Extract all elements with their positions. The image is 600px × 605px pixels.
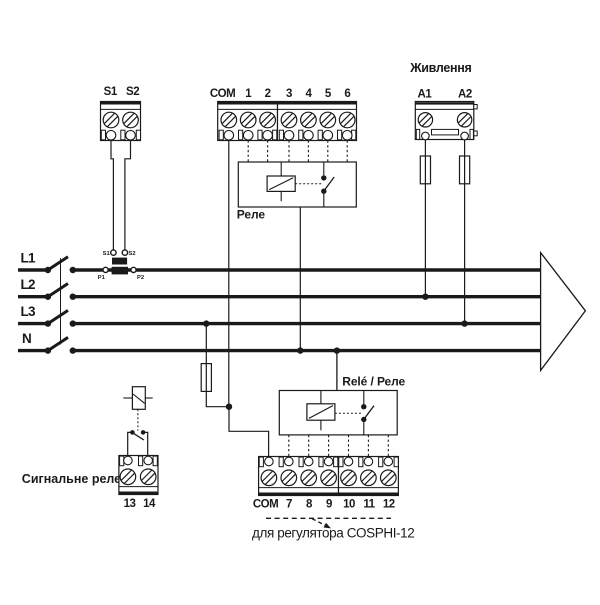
svg-text:Сигнальне реле: Сигнальне реле — [22, 472, 121, 486]
arrow (outgoing feeder) — [541, 253, 586, 371]
svg-text:12: 12 — [383, 499, 395, 511]
wire A2 to L3 bus — [464, 140, 466, 324]
K1 contact — [321, 162, 334, 207]
wire S2 terminal to CT S2 — [125, 141, 131, 251]
svg-text:N: N — [22, 331, 31, 346]
svg-text:7: 7 — [286, 499, 292, 511]
signal relay contact — [128, 430, 148, 455]
svg-text:S1: S1 — [104, 86, 118, 98]
dashed wire terminal 6 to relay K1 — [346, 141, 348, 163]
terminal block X5b (10 11 12) — [339, 457, 399, 496]
dashed wire terminal 4 to relay K1 — [307, 141, 309, 163]
svg-text:10: 10 — [343, 499, 355, 511]
svg-text:COM: COM — [210, 88, 235, 100]
fuse F2 — [460, 156, 470, 184]
svg-text:COM: COM — [253, 499, 278, 511]
wire K1 output to N bus — [299, 207, 301, 351]
svg-text:13: 13 — [124, 498, 136, 510]
svg-text:6: 6 — [344, 88, 350, 100]
junction A2/L3 — [461, 320, 467, 326]
dashed group line (COSPHI-12 terminals) — [266, 517, 391, 519]
bus wire L2 — [73, 295, 542, 298]
junction COM / fused L3 — [226, 404, 232, 410]
junction A1/L2 — [422, 294, 428, 300]
dashed wire K2 to terminal 10 — [348, 435, 350, 457]
CT terminal P1 — [103, 267, 108, 272]
CT terminal S1 — [111, 250, 116, 255]
svg-text:9: 9 — [326, 499, 332, 511]
wire junction to X5 COM terminal — [229, 407, 269, 457]
wire N bus to relay K2 — [336, 351, 338, 391]
leader arrowhead — [324, 523, 331, 529]
bus wire L1 — [73, 268, 542, 271]
dashed wire K2 to terminal 11 — [367, 435, 369, 457]
dashed wire K2 to terminal 9 — [328, 435, 330, 457]
svg-text:Relé / Реле: Relé / Реле — [342, 374, 405, 388]
svg-text:Реле: Реле — [237, 207, 266, 221]
dashed wire K2 to terminal 8 — [308, 435, 310, 457]
svg-text:14: 14 — [143, 498, 156, 510]
dashed wire K2 to terminal 7 — [288, 435, 290, 457]
signal relay coil — [123, 387, 152, 410]
junction L3 branch — [203, 320, 209, 326]
svg-text:для регулятора COSPHI-12: для регулятора COSPHI-12 — [252, 526, 414, 541]
svg-text:S1: S1 — [103, 251, 111, 257]
CT terminal S2 — [122, 250, 127, 255]
svg-text:P2: P2 — [137, 275, 144, 281]
dashed wire terminal 5 to relay K1 — [327, 141, 329, 163]
signal relay mechanical link (dashed) — [137, 409, 139, 430]
svg-text:L2: L2 — [21, 277, 36, 292]
disconnect switch on L2 — [18, 284, 76, 300]
svg-text:P1: P1 — [98, 275, 106, 281]
terminal block X5a (COM 7 8 9) — [259, 457, 339, 496]
bus wire L3 — [73, 322, 542, 325]
svg-text:L1: L1 — [21, 251, 37, 266]
bus wire N — [73, 349, 542, 352]
relay K1 box — [238, 162, 356, 207]
dashed wire terminal 2 to relay K1 — [267, 141, 269, 163]
wire L3 through fuse F3 to junction — [206, 324, 226, 407]
CT secondary core — [112, 258, 127, 265]
K2 mechanical link (dashed) — [335, 412, 361, 414]
fuse F1 — [420, 156, 430, 184]
terminal block X4 (A1 A2) — [415, 102, 477, 140]
svg-text:S2: S2 — [126, 86, 139, 98]
svg-text:3: 3 — [286, 88, 292, 100]
relay K2 box — [279, 391, 397, 435]
fuse F3 — [201, 364, 211, 392]
terminal block X1 (S1 S2) — [101, 102, 141, 141]
disconnect switch on L3 — [18, 310, 76, 326]
dashed wire terminal 1 to relay K1 — [247, 141, 249, 163]
disconnect switch on L1 — [18, 257, 76, 273]
K2 coil — [307, 391, 335, 431]
terminal block X2 (COM 1 2) — [218, 102, 278, 141]
wire COM (top) down to junction — [228, 141, 230, 407]
svg-text:2: 2 — [265, 88, 271, 100]
K1 mechanical link (dashed) — [295, 183, 322, 185]
dashed wire K2 to terminal 12 — [387, 435, 389, 457]
dashed leader to caption — [312, 519, 325, 526]
wire A1 to L2 bus — [424, 140, 426, 297]
terminal block X6 (13 14) — [119, 456, 158, 495]
K1 coil — [267, 162, 295, 201]
svg-text:S2: S2 — [129, 251, 136, 257]
dashed wire terminal 3 to relay K1 — [288, 141, 290, 163]
disconnect switch on N — [18, 337, 76, 353]
svg-text:A2: A2 — [458, 89, 472, 101]
junction N / K2 — [334, 347, 340, 353]
wire S1 terminal to CT S1 — [111, 141, 113, 251]
svg-text:11: 11 — [363, 499, 375, 511]
svg-text:A1: A1 — [418, 89, 433, 101]
K2 contact — [361, 391, 374, 435]
switch mechanical link line — [60, 258, 62, 344]
terminal block X3 (3 4 5 6) — [278, 102, 357, 141]
svg-text:L3: L3 — [21, 304, 37, 319]
CT terminal P2 — [131, 267, 136, 272]
junction K1/N — [297, 347, 303, 353]
CT primary bar — [112, 267, 128, 275]
svg-text:Живлення: Живлення — [409, 61, 471, 75]
